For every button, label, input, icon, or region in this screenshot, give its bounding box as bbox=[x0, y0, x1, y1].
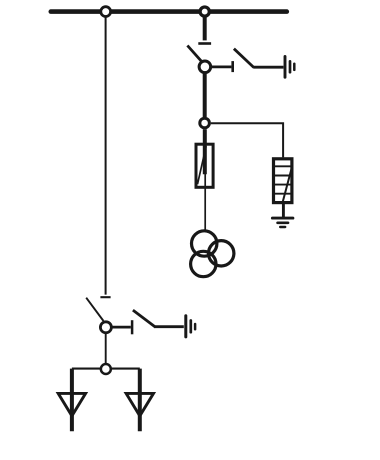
disconnector DS2 fixed contact bar bbox=[100, 296, 110, 298]
voltage transformer T1 winding 2 (right) bbox=[209, 241, 234, 266]
earthing switch ES1 blade (open) bbox=[234, 49, 254, 68]
wire: DS2 down to feeder node bbox=[105, 333, 107, 363]
damping resistor R1 hatch lines bbox=[274, 166, 292, 193]
node: fuse / resistor junction bbox=[200, 118, 210, 128]
wire: long feeder drop from left busbar node bbox=[105, 16, 107, 294]
node on busbar (VT branch tap) bbox=[200, 7, 209, 16]
feeder arrow right (outgoing cable) bbox=[126, 393, 153, 416]
earth symbol below resistor bbox=[272, 218, 293, 227]
disconnector DS2 blade (open) bbox=[86, 298, 103, 321]
wire: earthing switch ES1 lead from pivot bbox=[211, 66, 232, 69]
disconnector DS1 blade (open) bbox=[187, 46, 201, 62]
voltage transformer T1 winding 3 (bottom) bbox=[191, 251, 216, 276]
wire: tap to damping resistor (corner) bbox=[211, 123, 283, 157]
wire: earthing switch ES2 lead from pivot bbox=[112, 326, 131, 329]
node: feeder junction circle bbox=[101, 364, 111, 374]
disconnector DS1 fixed contact bar bbox=[198, 42, 211, 45]
earthing switch ES1 contact tick bbox=[231, 61, 234, 72]
feeder arrow left (outgoing cable) bbox=[58, 393, 85, 416]
earth symbol at ES1 bbox=[285, 56, 294, 77]
voltage transformer T1 winding 1 (top) bbox=[192, 231, 217, 256]
earth symbol at ES2 bbox=[186, 316, 195, 337]
disconnector DS2 pivot circle bbox=[100, 322, 111, 333]
wire: ES2 to earth bbox=[155, 325, 184, 328]
disconnector DS1 pivot circle bbox=[199, 61, 211, 73]
damping resistor R1 body bbox=[274, 159, 292, 203]
earthing switch ES2 contact tick bbox=[131, 320, 134, 334]
node on busbar (left feeder tap) bbox=[101, 7, 111, 17]
wire: disconnector DS1 to node bbox=[203, 74, 207, 117]
busbar bbox=[51, 9, 287, 14]
wire: drop from right busbar node to disconnector contact bbox=[203, 16, 207, 40]
damping resistor R1 diagonal bbox=[282, 167, 292, 204]
wire: left feeder drop bbox=[70, 369, 74, 432]
wire: ES1 to earth bbox=[253, 66, 283, 69]
wire: fuse to voltage transformer (thin conductor) bbox=[204, 174, 206, 230]
fuse F1 body bbox=[196, 144, 213, 187]
wire: resistor to earth bbox=[282, 204, 285, 217]
wire: right feeder drop bbox=[138, 369, 142, 432]
wire: node into fuse (thick conductor) bbox=[203, 129, 207, 174]
wire: feeder tee (horizontal) bbox=[72, 368, 140, 370]
earthing switch ES2 blade (open) bbox=[133, 310, 156, 327]
fuse F1 element diagonal bbox=[198, 146, 207, 184]
